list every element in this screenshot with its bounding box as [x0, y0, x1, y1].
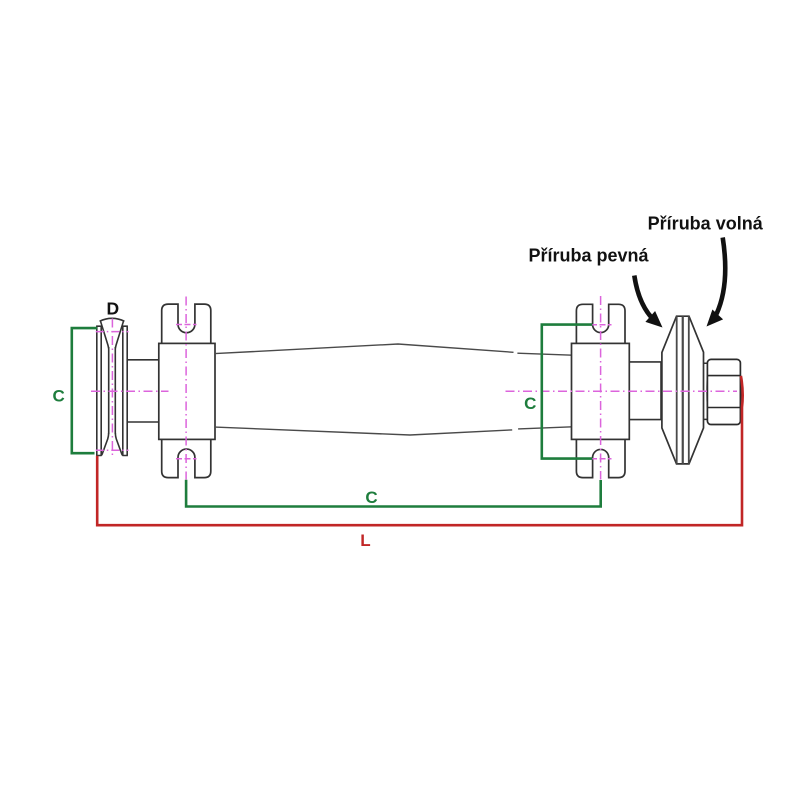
centerline pulley groove bottom [96, 449, 129, 451]
svg-text:D: D [106, 299, 119, 319]
pulley rim right wall [123, 326, 127, 455]
centerline right yoke top ear cross [591, 324, 612, 326]
hex nut outline [707, 359, 740, 424]
pulley rim top edges [96, 325, 128, 327]
pulley rim left wall [97, 326, 101, 455]
hex nut facet line top [707, 375, 740, 377]
right yoke bottom ear [576, 439, 625, 477]
svg-text:L: L [360, 531, 370, 550]
svg-text:C: C [365, 488, 377, 507]
dimension C right bracket [542, 325, 593, 459]
pulley rim bottom edges [96, 455, 128, 457]
centerline pulley vertical [111, 319, 113, 456]
left yoke body [159, 343, 215, 439]
centerline right yoke bottom ear cross [591, 458, 612, 460]
pulley groove channel walls [109, 347, 116, 434]
dimension C middle bracket [186, 480, 601, 507]
telescoping tube top profile [215, 344, 572, 355]
dimension C left bracket [72, 328, 97, 453]
neck flange to nut [704, 363, 708, 419]
svg-text:Příruba pevná: Příruba pevná [528, 246, 649, 266]
right yoke body [572, 343, 630, 439]
flange fixed face line [676, 316, 678, 464]
shaft right yoke to flange [629, 362, 662, 420]
centerline main horizontal right segment [506, 390, 738, 392]
hex nut middle facet side arcs [707, 376, 741, 408]
shaft pulley to left yoke [127, 360, 159, 422]
svg-text:C: C [53, 386, 65, 405]
left yoke top ear [162, 304, 211, 343]
centerline left yoke bottom ear cross [176, 458, 197, 460]
left yoke bottom ear [162, 439, 211, 477]
dimension L red line [97, 376, 742, 525]
centerline left yoke vertical [185, 297, 187, 480]
pulley V-groove top slants [100, 321, 123, 349]
centerline pulley groove top [96, 331, 129, 333]
pulley top rim arc [100, 318, 125, 321]
pulley V-groove bottom slants [101, 433, 122, 455]
flange pair octagon outline [662, 316, 704, 464]
arrow to fixed flange [634, 276, 656, 323]
telescoping tube bottom profile [215, 427, 572, 435]
svg-text:C: C [524, 394, 536, 413]
arrow to loose flange [717, 238, 726, 315]
right yoke top ear [576, 304, 625, 343]
flange contact middle line [682, 316, 684, 464]
centerline right yoke vertical [600, 296, 602, 480]
svg-text:Příruba volná: Příruba volná [648, 214, 764, 234]
centerline left yoke top ear cross [176, 324, 197, 326]
hex nut facet line bottom [707, 407, 740, 409]
centerline main horizontal left segment [91, 390, 169, 392]
flange loose face line [688, 316, 690, 464]
